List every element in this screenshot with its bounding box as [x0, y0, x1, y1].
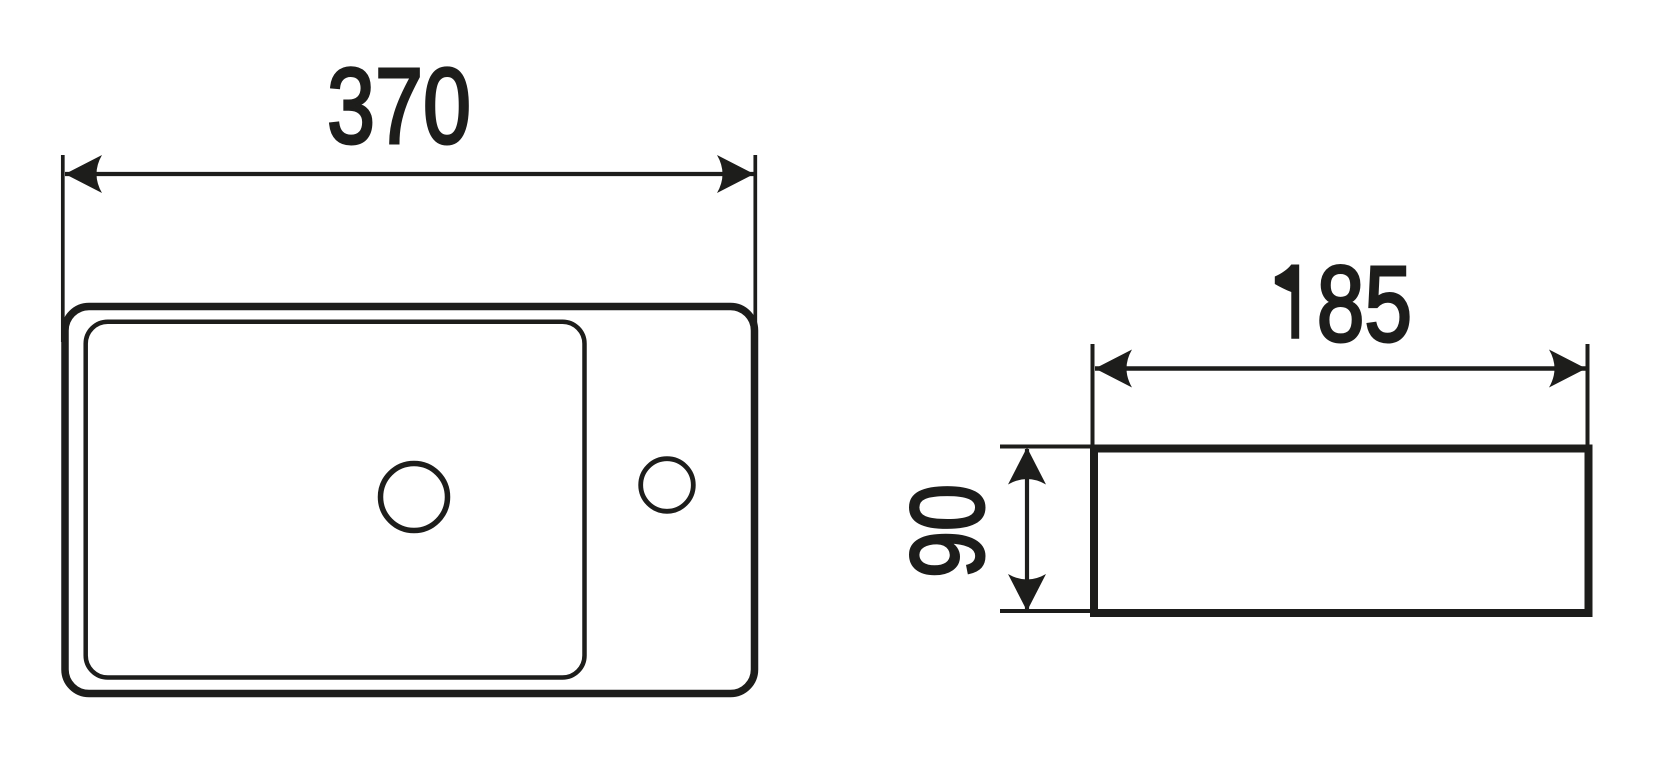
- arrowhead right of 370 dim: [717, 155, 754, 193]
- svg-text:370: 370: [327, 45, 471, 166]
- arrowhead bottom of 90 dim: [1008, 574, 1046, 611]
- extension line right (370 dim): [753, 155, 757, 342]
- faucet hole circle: [641, 459, 694, 512]
- dimension line 370: [65, 172, 754, 176]
- extension line left (185 dim): [1091, 344, 1095, 446]
- arrowhead right of 185 dim: [1549, 350, 1586, 388]
- side view rectangle: [1094, 449, 1589, 614]
- arrowhead left of 370 dim: [65, 155, 102, 193]
- basin inner bowl outline: [86, 322, 585, 678]
- svg-text:90: 90: [890, 484, 1006, 578]
- dimension line 90 (vertical): [1025, 449, 1029, 610]
- extension line bottom (90 dim): [1000, 609, 1095, 613]
- arrowhead top of 90 dim: [1008, 448, 1046, 485]
- basin outer outline: [65, 307, 755, 694]
- drain hole circle: [381, 464, 448, 531]
- extension line top (90 dim): [1000, 445, 1095, 449]
- arrowhead left of 185 dim: [1095, 350, 1132, 388]
- dimension text 185: digit 1 drawn as path (no foot serif), digits 85 as text: [1275, 265, 1299, 339]
- extension line left (370 dim): [61, 155, 65, 342]
- svg-text:85: 85: [1317, 243, 1412, 364]
- extension line right (185 dim): [1586, 344, 1590, 446]
- dimension line 185: [1095, 366, 1586, 371]
